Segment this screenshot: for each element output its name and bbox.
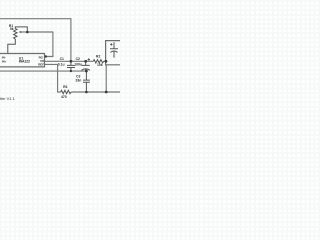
svg-text:R2: R2 bbox=[96, 55, 100, 59]
svg-text:R3: R3 bbox=[63, 85, 67, 89]
svg-text:INA122: INA122 bbox=[19, 59, 30, 63]
svg-text:C1: C1 bbox=[60, 57, 64, 61]
svg-text:100u: 100u bbox=[74, 62, 82, 66]
svg-text:470: 470 bbox=[61, 95, 67, 99]
svg-text:IN+: IN+ bbox=[2, 60, 7, 64]
svg-text:10k: 10k bbox=[97, 63, 103, 67]
svg-text:REF: REF bbox=[38, 62, 44, 66]
svg-text:0.1u: 0.1u bbox=[58, 62, 65, 66]
svg-text:33n: 33n bbox=[76, 78, 82, 82]
svg-text:fier V1.1: fier V1.1 bbox=[0, 96, 16, 101]
svg-text:C2: C2 bbox=[76, 57, 80, 61]
svg-text:5k: 5k bbox=[10, 27, 14, 31]
